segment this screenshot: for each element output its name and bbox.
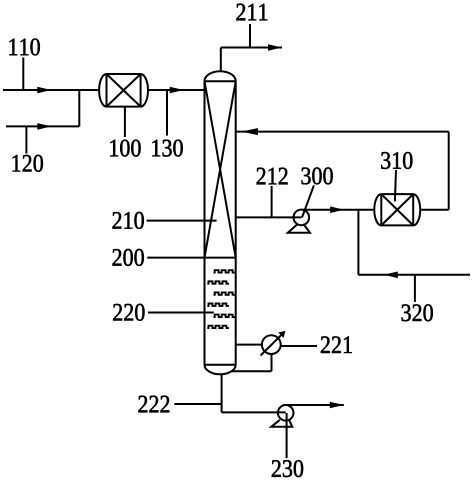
wire overhead stream 211	[221, 47, 282, 49]
arrow reflux into column	[241, 128, 258, 135]
leader line 130	[166, 90, 168, 136]
wire reboiler return horizontal	[232, 370, 272, 372]
label 300	[301, 167, 332, 184]
leader line 211	[249, 24, 251, 48]
leader line 230	[286, 413, 288, 458]
tray row 1	[214, 270, 236, 272]
wire feed stream 110	[3, 89, 100, 91]
leader line 200	[147, 257, 204, 259]
heat exchanger 100	[99, 74, 148, 107]
label 230	[272, 460, 303, 477]
arrow stream 320	[384, 272, 398, 279]
leader line 222	[174, 403, 221, 405]
label 211	[236, 4, 267, 21]
wire feed stream 120	[6, 125, 79, 127]
wire stream 320	[358, 274, 470, 276]
label 221	[321, 336, 352, 353]
arrow on stream 130	[170, 87, 184, 94]
reboiler 221	[261, 331, 286, 356]
arrow overhead stream 211	[268, 44, 282, 51]
wire pump 300 outlet	[302, 209, 373, 211]
tray row 6	[207, 326, 229, 328]
leader line 110	[22, 58, 24, 91]
leader line 120	[25, 126, 27, 153]
tray row 3	[214, 292, 236, 294]
leader line 210	[147, 220, 217, 222]
leader line 310	[395, 170, 396, 201]
wire 320 junction drop	[357, 210, 359, 275]
label 222	[138, 396, 169, 413]
arrow pump 300 outlet	[330, 206, 344, 213]
leader line 221	[281, 345, 317, 347]
label 120	[13, 155, 43, 172]
wire draw stream 212	[236, 216, 302, 218]
wire pump 230 outlet	[284, 404, 344, 406]
tray row 5	[214, 315, 236, 317]
label 212	[257, 168, 288, 185]
leader line 212	[271, 186, 273, 217]
label 320	[402, 304, 433, 321]
wire reboiler supply	[236, 344, 262, 346]
wire exchanger 310 to riser	[420, 209, 449, 211]
wire column bottom outlet	[221, 374, 223, 412]
label 220	[113, 304, 144, 321]
wire column top outlet	[220, 48, 222, 73]
label 310	[381, 152, 412, 169]
leader line 220	[148, 312, 214, 314]
wire junction 120 to 110	[78, 90, 80, 126]
arrow pump 230 outlet	[330, 402, 344, 409]
wire reflux return line	[236, 131, 449, 133]
label 210	[113, 212, 144, 229]
tray row 4	[207, 304, 229, 306]
wire right riser	[448, 132, 450, 210]
column 200 shell	[205, 71, 236, 374]
leader line 300	[302, 185, 314, 217]
wire reboiler return vertical	[271, 354, 273, 371]
arrow on stream 120	[37, 123, 51, 130]
arrow on stream 110	[37, 87, 51, 94]
pump 300	[288, 210, 310, 233]
wire bottoms to pump 230	[222, 411, 286, 413]
heat exchanger 310	[374, 194, 420, 225]
label 110	[9, 39, 39, 56]
label 200	[113, 249, 144, 266]
wire stream 130 exchanger to column	[148, 89, 205, 91]
tray row 2	[207, 281, 229, 283]
label 100	[110, 140, 140, 157]
label 130	[152, 140, 182, 157]
leader line 320	[414, 275, 416, 302]
packing section 210 X	[205, 81, 236, 257]
pump 230	[271, 405, 293, 427]
leader line 100	[124, 107, 126, 137]
